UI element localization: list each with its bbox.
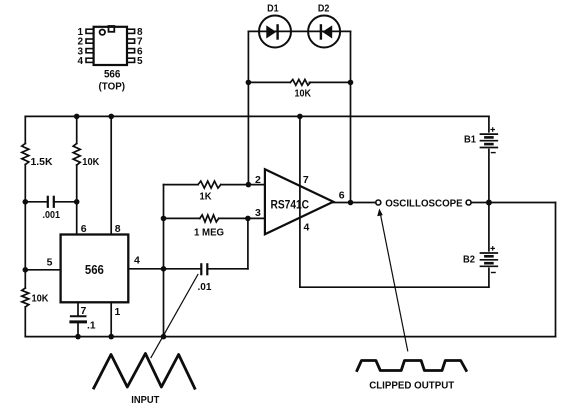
wire pin 4 row with .01 cap [128, 264, 248, 274]
pointer line to INPUT waveform [151, 275, 198, 358]
wire diode row [248, 30, 350, 32]
junction dot pin1/bus [108, 334, 114, 340]
junction dot .001 right [74, 199, 80, 205]
B2 minus mark [492, 272, 496, 274]
wire top supply bus [25, 115, 489, 117]
INPUT waveform [94, 354, 195, 389]
wire pin5 node down [24, 270, 26, 288]
svg-text:6: 6 [339, 190, 345, 202]
diode D2 circle [308, 16, 340, 48]
wire left diode leg down to pin2 row [247, 31, 249, 184]
svg-text:2: 2 [255, 174, 261, 186]
svg-text:7: 7 [303, 174, 309, 186]
package pin 8 [127, 29, 135, 33]
diode D1 symbol [266, 25, 277, 38]
svg-text:3: 3 [255, 207, 261, 219]
junction dot bus/10K-left [74, 114, 80, 120]
svg-text:4: 4 [77, 56, 83, 67]
svg-text:6: 6 [81, 223, 87, 235]
op-amp supply vertical (pins 7/4) [299, 116, 301, 287]
svg-text:8: 8 [115, 223, 121, 235]
pin 1 index dot [100, 30, 105, 35]
resistor 1.5K [22, 144, 29, 165]
junction dot pin2 row [246, 182, 252, 188]
pin 7 leg [77, 302, 79, 315]
svg-text:(TOP): (TOP) [99, 81, 126, 93]
package pin 7 [127, 39, 135, 43]
package pin 5 [127, 58, 135, 62]
diode D1 circle [259, 16, 291, 48]
capacitor .1 [71, 316, 86, 336]
terminal circle right [466, 200, 471, 205]
CLIPPED OUTPUT waveform [357, 361, 466, 371]
wire 10K-upper to pin 6 [76, 165, 78, 235]
package pin 1 [86, 29, 94, 33]
wire bus to 10K-upper [76, 116, 78, 143]
package pin 2 [86, 39, 94, 43]
junction dot output/diode leg [348, 200, 354, 206]
svg-text:1 MEG: 1 MEG [194, 227, 224, 239]
svg-text:CLIPPED OUTPUT: CLIPPED OUTPUT [369, 380, 455, 392]
svg-text:.1: .1 [87, 320, 96, 332]
wire bottom bus [25, 336, 555, 338]
svg-text:D2: D2 [318, 2, 330, 14]
B1 minus mark [492, 152, 496, 154]
svg-text:4: 4 [304, 222, 310, 234]
wire op-amp output [333, 202, 375, 204]
svg-text:B2: B2 [463, 254, 475, 266]
svg-text:5: 5 [137, 56, 143, 67]
IC 566 package body (top view) [94, 27, 127, 65]
resistor 1 MEG [164, 217, 200, 219]
svg-text:10K: 10K [32, 293, 49, 305]
svg-text:7: 7 [81, 305, 87, 317]
junction dot battery mid node [486, 200, 492, 206]
svg-text:.01: .01 [198, 281, 212, 293]
pointer arrow to oscilloscope terminal [377, 209, 408, 351]
svg-text:10K: 10K [295, 88, 312, 100]
op-amp RS741C [265, 169, 333, 234]
svg-text:10K: 10K [82, 156, 99, 168]
junction dot bus/pin8 [108, 114, 114, 120]
battery B1 [481, 116, 498, 202]
wire pin 5 [25, 269, 60, 271]
B2 plus mark [491, 247, 494, 250]
wire 10K to bottom bus [24, 307, 26, 337]
svg-text:1K: 1K [200, 191, 212, 203]
wire right diode leg down to output row [350, 31, 352, 202]
package index notch [109, 26, 115, 32]
package pin 4 [86, 58, 94, 62]
svg-text:566: 566 [104, 69, 121, 81]
resistor 10K (feedback) [248, 81, 290, 83]
wire right edge down [555, 203, 557, 337]
svg-text:.001: .001 [43, 209, 61, 221]
svg-text:1.5K: 1.5K [31, 156, 53, 168]
terminal circle left [376, 200, 381, 205]
package pin 6 [127, 49, 135, 53]
wire .001 node to pin5 node [24, 202, 26, 270]
capacitor .001 [25, 197, 76, 207]
wire pin3 node down to .01 row [247, 218, 249, 268]
wire 1.5K to .001 node [24, 165, 26, 202]
svg-text:566: 566 [85, 262, 104, 277]
pin 1 leg [110, 302, 112, 336]
junction dot pin4/mid vertical [161, 266, 167, 272]
package pin 3 [86, 49, 94, 53]
junction dot .001 left [23, 199, 29, 205]
junction dot mid vertical/bottom bus [161, 334, 167, 340]
svg-text:5: 5 [47, 257, 53, 269]
diode D2 symbol [321, 25, 332, 38]
resistor 10K (lower left) [22, 288, 29, 307]
svg-text:RS741C: RS741C [271, 198, 310, 212]
resistor 10K (upper) [73, 144, 80, 166]
svg-text:D1: D1 [267, 2, 279, 14]
svg-text:INPUT: INPUT [131, 394, 160, 406]
junction dot pin3 row [245, 216, 251, 222]
B1 plus mark [491, 128, 494, 131]
junction dot feedback-right [348, 80, 354, 86]
svg-text:4: 4 [134, 255, 140, 267]
wire bottom return (op-amp pin4 to B2) [300, 286, 489, 288]
wire pin 8 drop [110, 116, 112, 234]
wire mid vertical (1K node down to bottom bus) [163, 185, 165, 337]
wire left edge vertical [24, 116, 26, 143]
junction dot pin5/left column [23, 267, 29, 273]
junction dot bus/op-amp supply [297, 114, 303, 120]
svg-text:OSCILLOSCOPE: OSCILLOSCOPE [385, 197, 463, 209]
junction dot 1MEG/mid vertical [161, 216, 167, 222]
battery B2 [481, 203, 498, 288]
IC U1 566 block [61, 235, 129, 303]
svg-text:B1: B1 [464, 134, 476, 146]
wire terminal to battery node [471, 202, 555, 204]
junction dot pin7/bus [75, 334, 81, 340]
svg-text:1: 1 [115, 306, 121, 318]
junction dot feedback-left [246, 80, 252, 86]
resistor 1K [164, 184, 199, 186]
